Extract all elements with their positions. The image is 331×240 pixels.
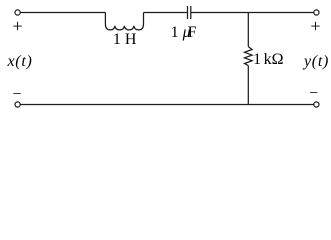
wire between inductor and capacitor — [144, 12, 187, 14]
wire between capacitor and right terminal — [191, 12, 313, 14]
minus sign left — [9, 86, 25, 104]
terminal bottom-right — [314, 102, 319, 107]
plus sign left — [10, 16, 26, 37]
label 1 kOhm — [253, 51, 283, 69]
plus sign right — [307, 16, 323, 37]
inductor L (1 H) — [105, 13, 143, 30]
wire from top node down to resistor — [247, 13, 249, 47]
wire top-left segment — [21, 12, 106, 14]
wire from resistor down to bottom wire — [247, 66, 249, 105]
label y(t) — [304, 53, 329, 71]
bottom wire — [21, 104, 314, 106]
resistor R (1 kOhm) zigzag — [245, 47, 253, 66]
label x(t) — [8, 53, 33, 71]
terminal bottom-left — [15, 102, 20, 107]
label 1 uF — [171, 24, 197, 42]
terminal top-left — [15, 10, 20, 15]
capacitor C (1 uF) left plate — [187, 6, 189, 19]
label 1 H — [113, 31, 137, 49]
terminal top-right — [314, 10, 319, 15]
capacitor C (1 uF) right plate — [190, 6, 192, 19]
minus sign right — [306, 85, 322, 103]
